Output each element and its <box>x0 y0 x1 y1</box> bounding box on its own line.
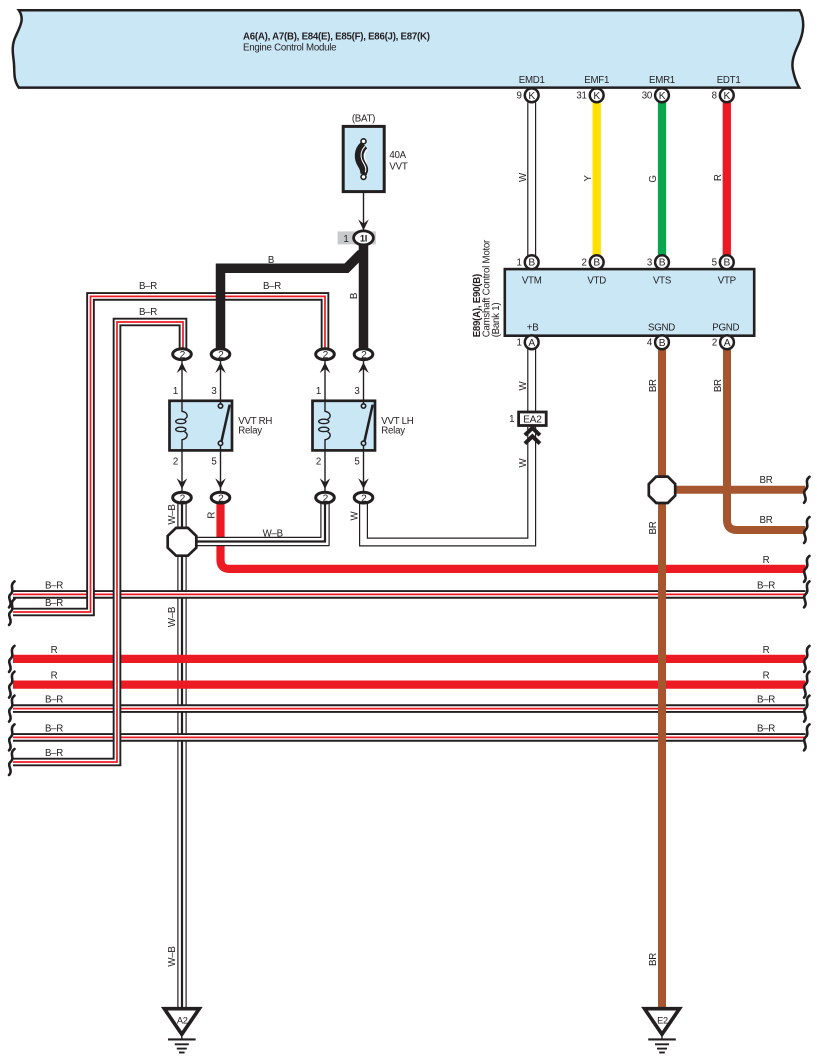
wire W ECM EMD1 to camshaft motor VTM (white) <box>527 103 536 256</box>
connector oval 2 (above relay VVT LH pin 3) <box>354 349 373 361</box>
pin 4 connector circle camshaft motor SGND <box>647 335 669 349</box>
svg-text:EMD1: EMD1 <box>519 75 545 86</box>
svg-text:EMR1: EMR1 <box>649 75 675 86</box>
svg-text:W: W <box>350 510 361 520</box>
wire B-R bus line (full width, upper) (black-red) <box>13 704 806 713</box>
relay VVT RH switch <box>220 401 222 451</box>
svg-text:A2: A2 <box>177 1015 188 1025</box>
wire R bus line (full width, upper) <box>13 655 806 663</box>
wire B-R from left edge up to relay VVT RH pin 1 (black-red) <box>13 322 183 762</box>
svg-text:K: K <box>593 91 600 102</box>
svg-text:5: 5 <box>712 258 717 269</box>
arrow relay VVT RH pin 3 in <box>215 362 226 373</box>
wire R bus line (full width, lower) <box>13 680 806 688</box>
svg-text:B–R: B–R <box>757 695 775 706</box>
svg-text:B–R: B–R <box>263 281 281 292</box>
ground A2 <box>164 1009 199 1053</box>
svg-text:B: B <box>268 255 274 266</box>
arrow relay VVT RH pin 1 in <box>177 362 188 373</box>
svg-text:3: 3 <box>647 258 652 269</box>
svg-text:R: R <box>51 645 58 656</box>
svg-text:3: 3 <box>354 386 359 397</box>
svg-text:B–R: B–R <box>757 580 775 591</box>
relay VVT RH coil <box>182 401 187 419</box>
frayed wire end right <box>804 724 810 750</box>
svg-text:2: 2 <box>173 456 178 467</box>
wire B-R from left edge up to relay VVT LH pin 1 (black-red) <box>13 296 325 612</box>
fuse 40A VVT <box>343 126 384 191</box>
svg-text:2: 2 <box>712 338 717 349</box>
pin 1 connector circle camshaft motor +B <box>517 335 539 349</box>
wire B fuse connector to relay VVT LH pin 3 <box>359 243 369 349</box>
svg-text:A: A <box>528 338 535 349</box>
arrow relay VVT RH pin 5 out <box>215 478 226 489</box>
pin 31 connector circle ECM EMF1 <box>576 88 603 102</box>
svg-text:W–B: W–B <box>167 607 178 627</box>
svg-text:8: 8 <box>712 91 717 102</box>
ground E2 <box>645 1009 680 1053</box>
svg-text:2: 2 <box>180 350 186 361</box>
svg-text:BR: BR <box>648 379 659 392</box>
svg-text:BR: BR <box>760 475 773 486</box>
svg-text:PGND: PGND <box>712 323 739 334</box>
svg-text:3: 3 <box>211 386 216 397</box>
svg-text:1: 1 <box>173 386 178 397</box>
svg-text:R: R <box>763 555 770 566</box>
svg-text:B: B <box>528 258 535 269</box>
svg-text:BR: BR <box>648 521 659 534</box>
svg-text:(BAT): (BAT) <box>352 114 375 125</box>
svg-text:R: R <box>51 671 58 682</box>
pin 8 connector circle ECM EDT1 <box>712 88 734 102</box>
svg-text:4: 4 <box>647 338 653 349</box>
arrow relay VVT RH pin 2 out <box>177 478 188 489</box>
svg-text:2: 2 <box>218 350 224 361</box>
svg-text:1: 1 <box>517 258 522 269</box>
arrow relay VVT LH pin 5 out <box>358 478 369 489</box>
svg-text:K: K <box>724 91 731 102</box>
wire BR junction to right edge <box>670 486 806 494</box>
svg-text:2: 2 <box>180 493 186 504</box>
svg-text:W–B: W–B <box>263 528 283 539</box>
svg-text:EMF1: EMF1 <box>584 75 609 86</box>
svg-text:2: 2 <box>323 350 329 361</box>
wire G ECM EMR1 to camshaft motor VTS <box>658 103 666 256</box>
svg-text:B–R: B–R <box>757 723 775 734</box>
wire R ECM EDT1 to camshaft motor VTP <box>723 103 731 256</box>
EA2 shield chevrons <box>525 428 540 444</box>
junction node W-B splice (left) <box>168 528 197 556</box>
svg-text:A: A <box>724 338 731 349</box>
arrow relay VVT LH pin 1 in <box>320 362 331 373</box>
frayed wire end right <box>804 696 810 722</box>
svg-text:B: B <box>349 293 360 299</box>
svg-text:R: R <box>763 671 770 682</box>
frayed wire end right <box>804 477 810 503</box>
connector oval 2 (below relay VVT LH pin 5) <box>354 492 373 504</box>
svg-text:1: 1 <box>316 386 321 397</box>
frayed wire end right <box>804 672 810 698</box>
svg-text:R: R <box>713 174 724 181</box>
svg-text:40A: 40A <box>389 150 406 161</box>
svg-text:K: K <box>659 91 666 102</box>
svg-text:SGND: SGND <box>648 323 675 334</box>
arrow fuse output down <box>358 219 369 230</box>
wire R relay VVT RH pin 5 to right edge <box>221 504 806 569</box>
wire Y ECM EMF1 to camshaft motor VTD <box>593 103 601 256</box>
frayed wire end left <box>9 581 15 607</box>
svg-text:9: 9 <box>517 91 522 102</box>
frayed wire end left <box>9 696 15 722</box>
arrow relay VVT LH pin 3 in <box>358 362 369 373</box>
connector oval 2 (below relay VVT RH pin 5) <box>211 492 230 504</box>
pin 1 connector circle camshaft motor VTM <box>517 255 539 269</box>
svg-text:B–R: B–R <box>45 695 63 706</box>
frayed wire end left <box>9 599 15 625</box>
svg-text:2: 2 <box>323 493 329 504</box>
pin 2 connector circle camshaft motor PGND <box>712 335 734 349</box>
svg-text:31: 31 <box>576 91 586 102</box>
svg-text:5: 5 <box>211 456 216 467</box>
svg-text:(Bank 1): (Bank 1) <box>491 303 502 338</box>
connector oval 2 (above relay VVT RH pin 3) <box>211 349 230 361</box>
svg-text:W–B: W–B <box>167 504 178 524</box>
svg-text:2: 2 <box>361 493 367 504</box>
connector oval 2 (below relay VVT RH pin 2) <box>173 492 192 504</box>
svg-text:VTM: VTM <box>522 275 542 286</box>
svg-text:B: B <box>659 338 666 349</box>
svg-text:Relay: Relay <box>238 426 262 437</box>
wire B-R bus line (full width, lower) (black-red) <box>13 733 806 742</box>
svg-text:B–R: B–R <box>45 598 63 609</box>
svg-text:W: W <box>518 172 529 182</box>
svg-text:W: W <box>518 380 529 390</box>
pin 3 connector circle camshaft motor VTS <box>647 255 669 269</box>
svg-text:VTS: VTS <box>653 275 672 286</box>
svg-text:5: 5 <box>354 456 359 467</box>
pin 30 connector circle ECM EMR1 <box>642 88 669 102</box>
svg-text:2: 2 <box>582 258 587 269</box>
wire B-R bus line (full width) (black-red) <box>13 590 806 599</box>
svg-text:K: K <box>528 91 535 102</box>
relay VVT RH box <box>170 401 233 451</box>
relay VVT RH pin lines and arrows <box>182 361 221 492</box>
connector oval 2 (above relay VVT LH pin 1) <box>316 349 335 361</box>
svg-text:Relay: Relay <box>381 426 405 437</box>
wire W relay VVT LH pin 5 to EA2 to camshaft motor +B (white) <box>364 412 532 542</box>
frayed wire end right <box>804 517 810 543</box>
svg-text:30: 30 <box>642 91 653 102</box>
pin 9 connector circle ECM EMD1 <box>517 88 539 102</box>
junction node BR splice (right) <box>649 477 675 503</box>
relay VVT LH switch <box>363 401 365 451</box>
wire fuse to junction connector <box>363 192 365 231</box>
svg-text:B: B <box>724 258 731 269</box>
svg-text:W: W <box>518 457 529 467</box>
svg-text:BR: BR <box>713 379 724 392</box>
frayed wire end left <box>9 724 15 750</box>
svg-text:B: B <box>593 258 600 269</box>
wire W camshaft motor +B to EA2 (white) <box>527 349 536 412</box>
svg-text:R: R <box>763 645 770 656</box>
svg-text:+B: +B <box>527 323 539 334</box>
relay VVT LH coil <box>325 401 330 419</box>
svg-text:1: 1 <box>517 338 522 349</box>
svg-text:B–R: B–R <box>139 281 157 292</box>
wire B branch to relay VVT RH pin 3 <box>221 253 362 349</box>
svg-text:E2: E2 <box>657 1015 668 1025</box>
svg-text:2: 2 <box>316 456 321 467</box>
svg-text:R: R <box>207 512 218 519</box>
frayed wire end right <box>804 556 810 582</box>
pin 5 connector circle camshaft motor VTP <box>712 255 734 269</box>
frayed wire end right <box>804 581 810 607</box>
svg-text:EA2: EA2 <box>523 415 542 426</box>
svg-text:Y: Y <box>583 175 594 182</box>
svg-text:EDT1: EDT1 <box>717 75 741 86</box>
connector oval 2 (below relay VVT LH pin 2) <box>316 492 335 504</box>
svg-text:B–R: B–R <box>45 580 63 591</box>
svg-text:1: 1 <box>509 414 514 425</box>
svg-text:2: 2 <box>361 350 367 361</box>
frayed wire end left <box>9 646 15 672</box>
svg-text:G: G <box>648 175 659 182</box>
wire W-B relay VVT LH pin 2 to junction (white-black) <box>190 504 325 542</box>
wire BR camshaft motor PGND to right edge <box>727 349 806 530</box>
svg-text:B–R: B–R <box>45 748 63 759</box>
ECM band Engine Control Module <box>13 10 803 87</box>
svg-text:B: B <box>659 258 666 269</box>
pin 2 connector circle camshaft motor VTD <box>582 255 604 269</box>
svg-text:BR: BR <box>648 953 659 966</box>
svg-text:1I: 1I <box>360 232 367 243</box>
svg-text:W–B: W–B <box>167 946 178 966</box>
wire BR camshaft motor SGND to junction to ground E2 <box>658 349 666 1009</box>
relay VVT LH box <box>313 401 376 451</box>
frayed wire end left <box>9 672 15 698</box>
svg-text:BR: BR <box>760 515 773 526</box>
svg-text:1: 1 <box>343 234 348 245</box>
svg-text:Engine Control Module: Engine Control Module <box>243 43 336 54</box>
camshaft control motor E89(A), E90(B) box <box>505 269 754 336</box>
frayed wire end right <box>804 646 810 672</box>
arrow relay VVT LH pin 2 out <box>320 478 331 489</box>
svg-text:B–R: B–R <box>45 723 63 734</box>
wire W-B relay VVT RH pin 2 to junction to ground A2 (white-black) <box>177 504 186 1009</box>
svg-text:VTD: VTD <box>587 275 606 286</box>
svg-text:A6(A), A7(B), E84(E), E85(F),: A6(A), A7(B), E84(E), E85(F), E86(J), E8… <box>243 32 430 43</box>
svg-text:B–R: B–R <box>139 307 157 318</box>
frayed wire end left <box>9 749 15 775</box>
junction connector 1 II <box>338 231 376 245</box>
svg-text:2: 2 <box>218 493 224 504</box>
connector EA2 <box>509 412 546 426</box>
svg-text:VVT: VVT <box>389 161 407 172</box>
relay VVT LH pin lines and arrows <box>325 361 364 492</box>
connector oval 2 (above relay VVT RH pin 1) <box>173 349 192 361</box>
svg-text:VTP: VTP <box>718 275 736 286</box>
